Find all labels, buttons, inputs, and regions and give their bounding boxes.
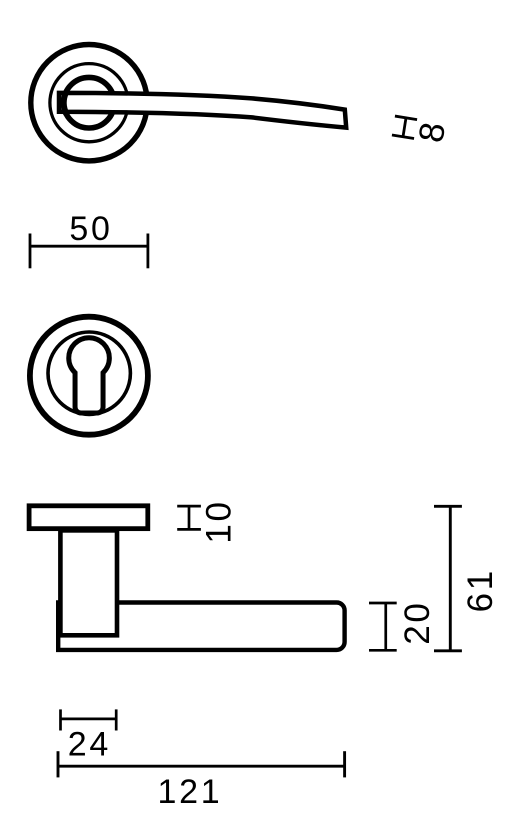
lever handle (top view) (59, 93, 346, 128)
rose middle circle (50, 64, 128, 142)
inner circle arc over lever (64, 92, 67, 114)
lever bar (side view) (58, 603, 344, 650)
rose plate (side view) (29, 506, 148, 529)
svg-text:10: 10 (200, 499, 239, 543)
dimension 24 (neck width) (61, 709, 117, 763)
escutcheon outer circle (30, 317, 148, 435)
svg-text:50: 50 (69, 210, 112, 248)
dimension 10 (plate thickness) (177, 499, 238, 543)
svg-text:20: 20 (398, 600, 437, 644)
dimension 61 (overall height) (434, 506, 500, 651)
dimension 121 (overall length) (58, 751, 345, 811)
euro cylinder keyhole (69, 338, 110, 413)
dimension 50 (rose diameter) (30, 210, 148, 268)
neck (side view) (60, 530, 117, 635)
svg-text:121: 121 (157, 773, 222, 811)
svg-text:61: 61 (461, 568, 500, 612)
rose inner circle (64, 77, 115, 128)
rose outer circle (top view) (31, 44, 147, 160)
svg-text:24: 24 (68, 725, 111, 763)
escutcheon inner circle (48, 332, 130, 414)
dimension 8 (lever thickness, rotated) (392, 116, 453, 145)
dimension 20 (bar thickness) (369, 600, 437, 650)
